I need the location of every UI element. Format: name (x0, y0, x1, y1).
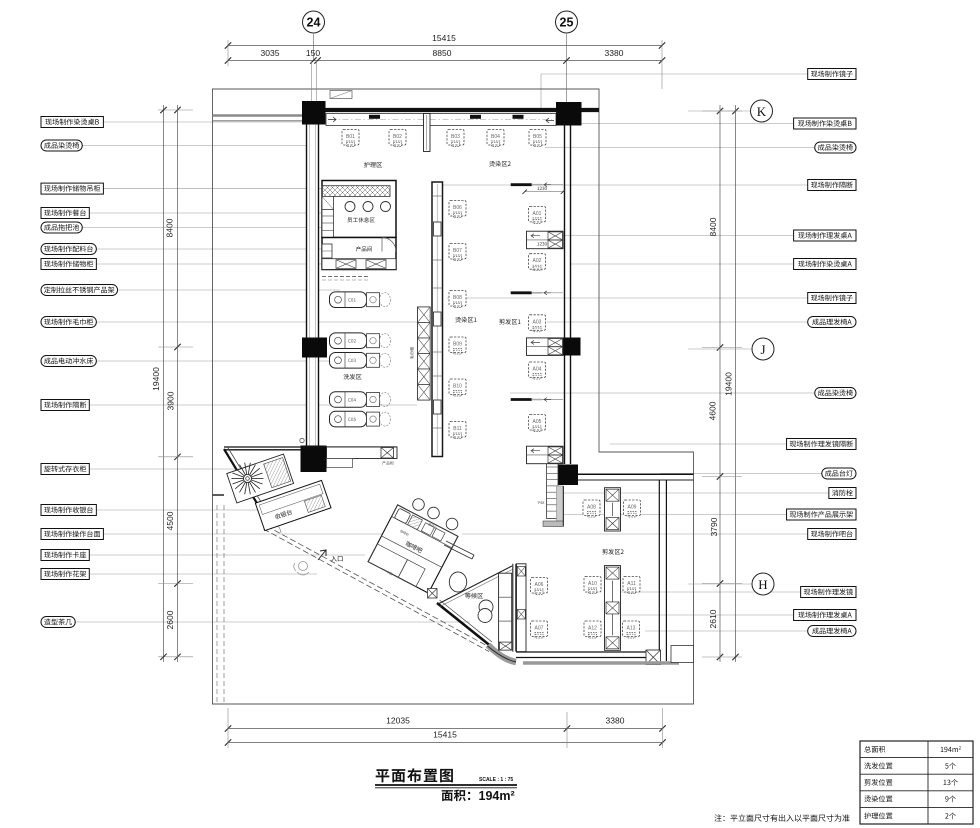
right dim lines (719, 105, 721, 662)
grid bubble H (688, 583, 752, 585)
svg-text:4600: 4600 (708, 401, 718, 420)
styling station (527, 338, 564, 356)
walls and columns (213, 91, 600, 663)
column mid-left (302, 338, 327, 358)
leader line 成品电动冲水床 (96, 360, 330, 362)
fire niche gray strip (557, 486, 564, 526)
bottom extension lines (227, 708, 229, 748)
wash bed C04 (330, 392, 367, 408)
label 成品拖把池 (41, 222, 82, 233)
svg-text:现场制作毛巾柜: 现场制作毛巾柜 (44, 318, 94, 328)
svg-text:A08: A08 (587, 505, 596, 511)
svg-text:3380: 3380 (605, 48, 624, 58)
perm chairs top row (342, 130, 546, 147)
wall stub right (671, 646, 694, 663)
label 现场制作配料台 (41, 244, 96, 255)
label 成品理发椅A (808, 317, 856, 328)
svg-text:洗发位置: 洗发位置 (864, 762, 893, 772)
svg-text:现场制作理发镜隔断: 现场制作理发镜隔断 (789, 440, 853, 450)
styling station (527, 446, 564, 464)
svg-text:3380: 3380 (606, 716, 625, 726)
svg-text:19400: 19400 (151, 367, 161, 391)
svg-text:现场制作理发镜: 现场制作理发镜 (803, 588, 853, 598)
label 现场制作理发桌A (794, 610, 856, 621)
label 现场制作储物柜 (41, 259, 96, 270)
svg-text:150: 150 (306, 48, 320, 58)
leader line 现场制作镜子 (541, 73, 808, 75)
svg-text:现场制作吧台: 现场制作吧台 (811, 530, 854, 540)
stainless product shelf dashed (322, 276, 368, 278)
haircut room 2 structure (499, 450, 694, 665)
svg-text:现场制作卡座: 现场制作卡座 (44, 551, 87, 561)
chair B05 (529, 130, 546, 147)
left wall (307, 124, 320, 446)
column top-left (302, 101, 326, 125)
coffee bar (368, 505, 458, 593)
chair A07 (531, 621, 548, 638)
wash area (330, 292, 391, 427)
svg-text:194m2: 194m2 (940, 745, 962, 755)
storefront solid lower wall (437, 603, 490, 646)
mop sink (322, 196, 334, 209)
svg-text:A01: A01 (533, 211, 542, 217)
leader line 现场制作花架 (89, 573, 317, 575)
station partition (605, 566, 621, 651)
cabinet small (322, 244, 332, 258)
svg-text:烫染区2: 烫染区2 (489, 159, 512, 168)
storefront glass dashed (264, 529, 490, 652)
chair B10 (449, 379, 466, 396)
svg-text:成品台灯: 成品台灯 (825, 469, 853, 479)
chair A01 (529, 206, 546, 223)
room right wall (658, 480, 660, 661)
svg-text:现场制作收银台: 现场制作收银台 (44, 506, 94, 516)
svg-text:B07: B07 (453, 248, 462, 254)
svg-text:A11: A11 (627, 581, 636, 587)
label 现场制作镜子 (808, 293, 856, 304)
svg-text:现场制作储物吊柜: 现场制作储物吊柜 (44, 184, 101, 194)
grid bubble K (688, 110, 750, 112)
chair A05 (529, 415, 546, 432)
svg-text:洗发区: 洗发区 (343, 372, 362, 381)
fire ladder (547, 464, 559, 519)
label 现场制作操作台面 (41, 529, 103, 540)
wash bed C05 (330, 411, 367, 427)
wash bed C01 (330, 292, 367, 308)
staff table circles (345, 202, 355, 212)
label 现场制作产品展示架 (787, 509, 856, 520)
cut zone 2 (531, 488, 641, 651)
svg-text:B08: B08 (453, 295, 462, 301)
svg-text:24: 24 (307, 16, 321, 30)
svg-text:B10: B10 (453, 384, 462, 390)
svg-text:成品染烫椅: 成品染烫椅 (44, 141, 79, 151)
label 成品台灯 (822, 468, 856, 479)
staff room walls (322, 181, 396, 238)
leader line 现场制作储物柜 (96, 263, 322, 265)
bottom exterior band (523, 661, 679, 664)
svg-text:现场制作染烫桌A: 现场制作染烫桌A (798, 260, 853, 270)
svg-text:现场制作染烫桌B: 现场制作染烫桌B (798, 119, 853, 129)
label 成品染烫椅 (41, 140, 82, 151)
storefront offset dashed lines (216, 505, 218, 704)
left dimensions (151, 105, 193, 662)
svg-text:现场制作理发桌A: 现场制作理发桌A (798, 611, 853, 621)
partition wall strip (512, 564, 514, 652)
wash bed C03 (330, 353, 367, 369)
leader line 成品理发椅A (547, 321, 808, 323)
leader line 成品染烫椅 (82, 145, 314, 147)
svg-text:A05: A05 (533, 419, 542, 425)
label 现场制作染烫桌B (794, 118, 856, 129)
svg-text:P48: P48 (538, 501, 545, 506)
svg-text:现场制作镜子: 现场制作镜子 (811, 294, 854, 304)
svg-text:现场制作产品展示架: 现场制作产品展示架 (789, 510, 853, 520)
svg-text:剪发位置: 剪发位置 (864, 778, 893, 788)
svg-text:B11: B11 (453, 426, 462, 432)
bar counter extension (446, 541, 474, 555)
svg-text:12035: 12035 (386, 716, 410, 726)
grid bubble 24 (303, 11, 325, 33)
svg-text:现场制作操作台面: 现场制作操作台面 (44, 530, 101, 540)
svg-text:成品拖把池: 成品拖把池 (44, 223, 79, 233)
statistics table (860, 741, 973, 824)
svg-text:8850: 8850 (433, 48, 452, 58)
svg-text:C01: C01 (348, 298, 356, 304)
grid bubble 25 (556, 11, 578, 33)
label 成品电动冲水床 (41, 356, 96, 367)
label 现场制作花架 (41, 569, 89, 580)
reception area (227, 454, 331, 531)
chair B09 (449, 337, 466, 354)
svg-text:8400: 8400 (165, 218, 175, 237)
label 现场制作染烫桌B (41, 117, 103, 128)
leader line 现场制作储物吊柜 (103, 188, 322, 190)
chair A09 (624, 500, 641, 517)
dim 1230 upper (525, 191, 563, 193)
svg-text:A13: A13 (627, 626, 636, 632)
door arc lobby (268, 521, 282, 534)
svg-text:入口: 入口 (331, 554, 344, 563)
svg-text:平面布置图: 平面布置图 (375, 765, 455, 786)
right dimensions and grid bubbles (688, 100, 774, 662)
perm chairs column (364, 159, 512, 439)
leader line 现场制作理发桌A (561, 235, 794, 237)
bottom dimensions (225, 708, 666, 748)
waiting chairs (449, 572, 466, 592)
rotating clothes cabinet sunburst (232, 463, 264, 495)
bar corner box (428, 589, 438, 599)
leader line 定制拉丝不锈钢产品架 (118, 289, 341, 291)
chair B04 (487, 130, 504, 147)
svg-text:消防栓: 消防栓 (832, 489, 853, 499)
left glass partition boxes (517, 564, 527, 652)
leader line 现场制作隔断 (443, 184, 808, 186)
hanging cabinet hatched (322, 186, 390, 197)
leader line 现场制作理发镜隔断 (610, 443, 787, 445)
label 现场制作理发镜 (801, 587, 856, 598)
label 成品理发椅A (808, 626, 856, 637)
svg-text:护理位置: 护理位置 (864, 811, 893, 821)
svg-text:15415: 15415 (433, 730, 457, 740)
svg-text:SCALE : 1 : 75: SCALE : 1 : 75 (479, 777, 513, 783)
mirror wall partition (432, 182, 443, 457)
label 成品染烫椅 (815, 142, 856, 153)
svg-text:B02: B02 (393, 134, 402, 140)
product room counter (322, 259, 396, 270)
leader line 现场制作餐台 (89, 212, 344, 214)
station partition (605, 488, 621, 531)
right wall (564, 126, 566, 465)
svg-text:员工休息区: 员工休息区 (347, 216, 375, 224)
svg-text:烫染位置: 烫染位置 (864, 795, 893, 805)
leader line 现场制作理发桌A (617, 614, 794, 616)
chair B02 (389, 130, 406, 147)
curved corner wall (488, 645, 516, 662)
cabinet hatch (264, 458, 291, 488)
svg-text:B06: B06 (453, 205, 462, 211)
svg-text:B04: B04 (491, 134, 500, 140)
svg-text:B01: B01 (346, 134, 355, 140)
svg-text:2600: 2600 (165, 610, 175, 629)
svg-text:A03: A03 (533, 319, 542, 325)
svg-text:定制拉丝不锈钢产品架: 定制拉丝不锈钢产品架 (44, 286, 115, 296)
svg-text:等候区: 等候区 (465, 591, 484, 600)
label 现场制作镜子 (808, 69, 856, 80)
label 现场制作吧台 (808, 529, 856, 540)
chair A13 (623, 621, 640, 638)
wash bed C02 (330, 333, 367, 349)
svg-text:现场制作储物柜: 现场制作储物柜 (44, 260, 94, 270)
boundary step (213, 494, 225, 496)
svg-text:5个: 5个 (945, 762, 956, 772)
leader line 成品染烫椅 (545, 147, 815, 149)
svg-text:成品染烫椅: 成品染烫椅 (818, 389, 853, 399)
label 消防栓 (829, 488, 856, 499)
label 现场制作收银台 (41, 505, 96, 516)
chair A04 (529, 362, 546, 379)
svg-text:C03: C03 (348, 358, 356, 364)
svg-text:19400: 19400 (724, 372, 734, 396)
chair A06 (531, 578, 548, 595)
label 现场制作隔断 (41, 400, 89, 411)
svg-text:A06: A06 (535, 582, 544, 588)
wash area bottom wall (224, 446, 397, 448)
label 现场制作储物吊柜 (41, 183, 103, 194)
leader line 旋转式存衣柜 (89, 468, 240, 470)
top counter band (326, 114, 556, 126)
svg-text:K: K (757, 104, 767, 119)
svg-text:现场制作配料台: 现场制作配料台 (44, 245, 94, 255)
svg-text:A04: A04 (533, 367, 542, 373)
svg-text:15415: 15415 (432, 33, 456, 43)
flower display rack (499, 573, 512, 650)
wall mounted partition bar (511, 398, 532, 401)
wall mounted partition bar (511, 183, 532, 186)
svg-text:成品理发椅A: 成品理发椅A (812, 627, 852, 637)
leader line 现场制作卡座 (89, 554, 365, 556)
outer boundary (213, 89, 694, 704)
site boundary outline (213, 89, 694, 704)
svg-text:烫染区1: 烫染区1 (455, 315, 478, 324)
leader line 造型茶几 (75, 621, 470, 623)
chair B08 (449, 291, 466, 308)
center partition and mirror wall (410, 182, 443, 457)
leader line 现场制作染烫桌A (571, 263, 794, 265)
svg-text:2610: 2610 (708, 609, 718, 628)
svg-text:3790: 3790 (709, 517, 719, 536)
product room door arc (382, 238, 396, 252)
leader line 成品染烫椅 (510, 392, 815, 394)
column mid-right (560, 338, 581, 356)
bottom dim 12035/3380 (228, 728, 663, 730)
chair A08 (583, 500, 600, 517)
svg-text:1230: 1230 (537, 241, 548, 247)
svg-text:A09: A09 (628, 505, 637, 511)
svg-text:产品间: 产品间 (356, 245, 373, 253)
svg-text:2个: 2个 (945, 811, 956, 821)
chair B03 (447, 130, 464, 147)
svg-text:8400: 8400 (708, 217, 718, 236)
staff and product rooms (322, 181, 396, 281)
label 现场制作毛巾柜 (41, 317, 96, 328)
wall mounted partition bar (511, 291, 532, 294)
leader line 现场制作隔断 (89, 404, 417, 406)
svg-text:A02: A02 (533, 258, 542, 264)
chair A03 (529, 315, 546, 332)
svg-text:现场制作餐台: 现场制作餐台 (44, 209, 87, 219)
leader line 消防栓 (563, 492, 829, 494)
leader line 现场制作吧台 (462, 533, 808, 535)
label 现场制作理发桌A (794, 230, 856, 241)
reception desk (255, 480, 331, 530)
cabinets left stack (322, 209, 334, 237)
leader line 现场制作染烫桌B (103, 121, 302, 123)
leader line 现场制作染烫桌B (581, 123, 794, 125)
chair B11 (449, 422, 466, 439)
column bottom-left (301, 446, 327, 473)
svg-text:成品理发椅A: 成品理发椅A (812, 318, 852, 328)
grid bubble J (688, 348, 752, 350)
svg-text:剪发区1: 剪发区1 (499, 317, 522, 326)
person symbol (294, 562, 309, 576)
top wall (302, 108, 599, 112)
svg-text:J: J (760, 342, 765, 357)
top exterior gray band (213, 114, 303, 117)
callout labels with leaders (41, 69, 856, 637)
label 现场制作染烫桌A (794, 259, 856, 270)
svg-text:剪发区2: 剪发区2 (602, 547, 625, 556)
leader line 成品理发椅A (645, 630, 808, 632)
title block (375, 765, 850, 824)
chair A11 (623, 577, 640, 594)
svg-text:A07: A07 (535, 626, 544, 632)
leader line 现场制作产品展示架 (559, 514, 787, 516)
leader line 现场制作理发镜 (620, 591, 801, 593)
dimension 15415 top (228, 45, 662, 47)
svg-text:护理区: 护理区 (364, 160, 383, 169)
label 旋转式存衣柜 (41, 464, 89, 475)
svg-text:3900: 3900 (166, 391, 176, 410)
svg-text:A10: A10 (588, 581, 597, 587)
title underline (375, 784, 517, 786)
svg-text:现场制作镜子: 现场制作镜子 (811, 70, 854, 80)
cut zone 1 (499, 183, 565, 464)
svg-text:现场制作隔断: 现场制作隔断 (811, 181, 854, 191)
svg-text:H: H (758, 577, 767, 592)
label 造型茶几 (41, 617, 75, 628)
chair B07 (449, 244, 466, 261)
svg-text:1230: 1230 (537, 186, 548, 192)
leader line 现场制作操作台面 (103, 533, 392, 535)
svg-text:9个: 9个 (945, 795, 956, 805)
leader line 成品台灯 (660, 473, 822, 475)
leader line 成品拖把池 (82, 227, 330, 229)
svg-text:注：平立面尺寸有出入以平面尺寸为准: 注：平立面尺寸有出入以平面尺寸为准 (714, 813, 850, 824)
column bottom-right (556, 465, 578, 486)
column top-right (556, 102, 582, 126)
svg-text:C02: C02 (348, 339, 356, 345)
svg-text:造型茶几: 造型茶几 (44, 618, 72, 628)
svg-text:B03: B03 (451, 134, 460, 140)
waiting area back partition (438, 566, 512, 604)
cabinet frame backing (227, 454, 294, 503)
svg-text:产品柜: 产品柜 (382, 461, 394, 467)
product room walls (322, 238, 396, 270)
mirror totem top (424, 114, 431, 152)
svg-text:毛巾柜: 毛巾柜 (410, 347, 416, 360)
svg-text:A12: A12 (588, 626, 597, 632)
leader line 现场制作配料台 (96, 248, 327, 250)
room bottom wall (516, 651, 646, 653)
room top wall (578, 473, 694, 475)
door swing top (330, 91, 352, 99)
svg-text:现场制作花架: 现场制作花架 (44, 570, 87, 580)
chair A12 (584, 621, 601, 638)
chair A02 (529, 254, 546, 271)
towel cabinet stack (418, 307, 431, 400)
chair B01 (342, 130, 359, 147)
svg-text:25: 25 (560, 16, 574, 30)
leader line 现场制作镜子 (447, 297, 808, 299)
label 现场制作卡座 (41, 550, 89, 561)
extension lines (227, 40, 229, 66)
top dimensions (225, 11, 665, 158)
bar stools (413, 499, 425, 511)
svg-text:C04: C04 (348, 397, 356, 403)
label 现场制作理发镜隔断 (787, 439, 856, 450)
chair A10 (584, 577, 601, 594)
table (860, 741, 973, 824)
svg-text:成品染烫椅: 成品染烫椅 (818, 143, 853, 153)
leader line 现场制作毛巾柜 (96, 321, 417, 323)
left dim lines (163, 105, 165, 662)
svg-text:3035: 3035 (261, 48, 280, 58)
svg-text:B05: B05 (533, 134, 542, 140)
label 现场制作餐台 (41, 208, 89, 219)
label 现场制作隔断 (808, 180, 856, 191)
chair B06 (449, 201, 466, 218)
svg-text:现场制作理发桌A: 现场制作理发桌A (798, 231, 853, 241)
styling station (527, 231, 564, 249)
svg-text:B09: B09 (453, 342, 462, 348)
svg-text:现场制作隔断: 现场制作隔断 (44, 401, 87, 411)
label 定制拉丝不锈钢产品架 (41, 285, 118, 296)
bottom dim 15415 (228, 742, 663, 744)
dimension row 3035/150/8850/3380 (228, 60, 662, 62)
lobby NW diagonal wall (224, 449, 268, 521)
svg-text:现场制作染烫桌B: 现场制作染烫桌B (45, 118, 100, 128)
